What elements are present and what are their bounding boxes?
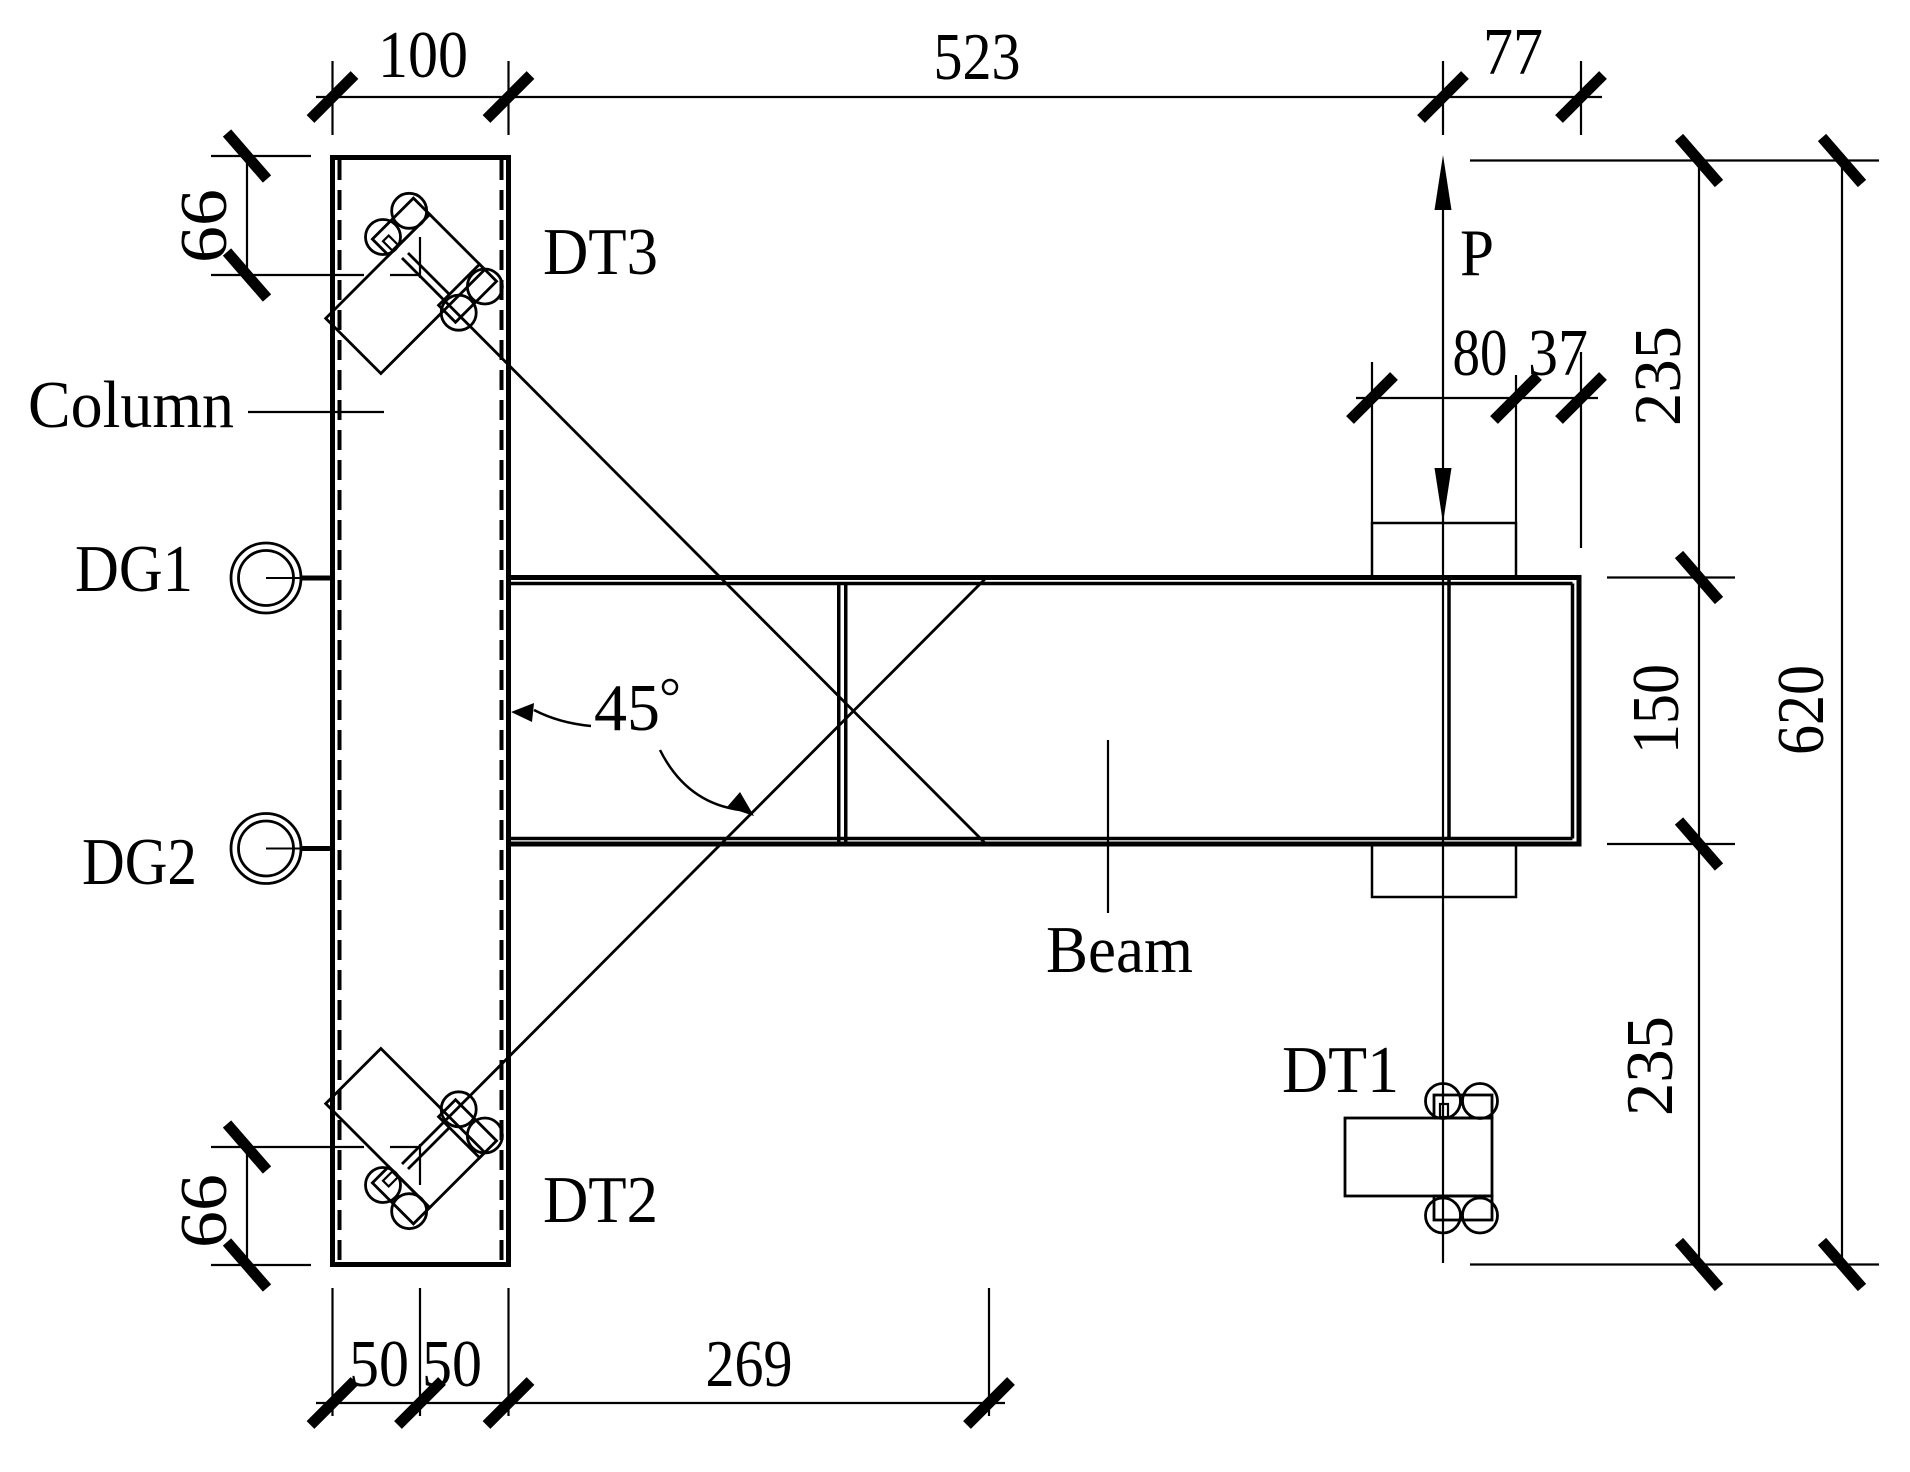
- beam stiffener line 2: [844, 584, 848, 843]
- arrow up P: [1435, 155, 1452, 210]
- dim 66 top line: [246, 156, 248, 275]
- Column leader line: [248, 411, 384, 413]
- dial gauge DG1: [231, 543, 331, 613]
- right dim ticks: [1679, 138, 1719, 184]
- dim 66 bottom extensions: [211, 1147, 364, 1265]
- DT3 datum mark: [390, 237, 420, 278]
- chain dimension line 235-150-235: [1698, 161, 1700, 1265]
- arrow down load: [1435, 468, 1452, 523]
- svg-text:235: 235: [1613, 1016, 1687, 1116]
- Beam leader line: [1107, 740, 1109, 913]
- svg-text:80: 80: [1453, 316, 1508, 390]
- dim 66 bottom line: [246, 1147, 248, 1265]
- beam end plate line: [1447, 580, 1451, 840]
- dim 66 bottom ticks: [227, 1124, 267, 1170]
- diagonal rod B: [402, 578, 986, 1164]
- diagonal rod B clamp line: [408, 1127, 450, 1169]
- svg-text:66: 66: [167, 189, 241, 263]
- svg-text:50: 50: [349, 1327, 409, 1401]
- load axis P line: [1442, 210, 1444, 1263]
- svg-text:269: 269: [706, 1327, 793, 1401]
- svg-text:DG2: DG2: [82, 825, 197, 899]
- svg-text:620: 620: [1764, 665, 1838, 755]
- svg-text:523: 523: [934, 20, 1021, 94]
- dim 80-37 ticks: [1350, 376, 1394, 420]
- beam inner end line: [1571, 584, 1575, 839]
- column dashed flange line left: [338, 160, 342, 1262]
- dim 66 top ticks: [227, 133, 267, 179]
- svg-text:Beam: Beam: [1046, 913, 1193, 987]
- beam stiffener line 1: [837, 584, 841, 843]
- right extension lines: [1470, 161, 1879, 1265]
- dim 66 top extensions: [211, 156, 364, 275]
- diagonal rod A clamp line: [408, 253, 450, 295]
- svg-text:DT1: DT1: [1282, 1033, 1399, 1107]
- dim 80-37 line: [1356, 397, 1598, 399]
- svg-text:DG1: DG1: [75, 532, 193, 606]
- svg-text:DT3: DT3: [543, 215, 658, 289]
- top dimension line: [316, 96, 1602, 98]
- svg-text:37: 37: [1528, 316, 1588, 390]
- bottom dim ticks: [311, 1381, 355, 1425]
- dim 80-37 extensions: [1372, 362, 1516, 522]
- column outline: [333, 158, 509, 1265]
- svg-text:100: 100: [378, 18, 468, 92]
- svg-text:Column: Column: [28, 368, 234, 442]
- svg-text:66: 66: [167, 1174, 241, 1248]
- beam inner top line: [511, 582, 1573, 586]
- degree symbol: [663, 680, 677, 694]
- 45 leader to rod: [660, 750, 740, 810]
- dial gauge DG2: [231, 814, 331, 884]
- svg-text:235: 235: [1621, 326, 1695, 426]
- beam inner bottom line: [511, 837, 1573, 841]
- transducer DT1: [1345, 1084, 1498, 1197]
- beam outline: [509, 578, 1580, 845]
- diagonal rod A: [402, 258, 986, 844]
- svg-text:150: 150: [1619, 664, 1693, 754]
- svg-text:50: 50: [422, 1327, 482, 1401]
- 45 leader arrowhead right: [727, 792, 754, 816]
- top dim ticks: [311, 75, 355, 119]
- svg-text:77: 77: [1483, 15, 1543, 89]
- column dashed flange line right: [500, 160, 504, 1262]
- svg-text:45: 45: [594, 671, 660, 745]
- bottom dimension line: [316, 1402, 1005, 1404]
- transducer DT2: [301, 1049, 488, 1236]
- DT2 datum mark: [390, 1144, 420, 1185]
- 45 leader to column face: [534, 710, 591, 726]
- bottom dim extensions: [333, 1288, 990, 1416]
- overall dimension line 620: [1841, 161, 1843, 1265]
- 45 leader arrowhead left: [511, 703, 534, 722]
- bottom support plate: [1372, 844, 1516, 897]
- transducer DT3: [301, 186, 488, 373]
- svg-text:DT2: DT2: [543, 1163, 658, 1237]
- svg-text:P: P: [1460, 216, 1494, 290]
- top dim extension lines: [333, 61, 1582, 548]
- top loading plate: [1372, 523, 1516, 578]
- load axis extension top: [1442, 61, 1444, 135]
